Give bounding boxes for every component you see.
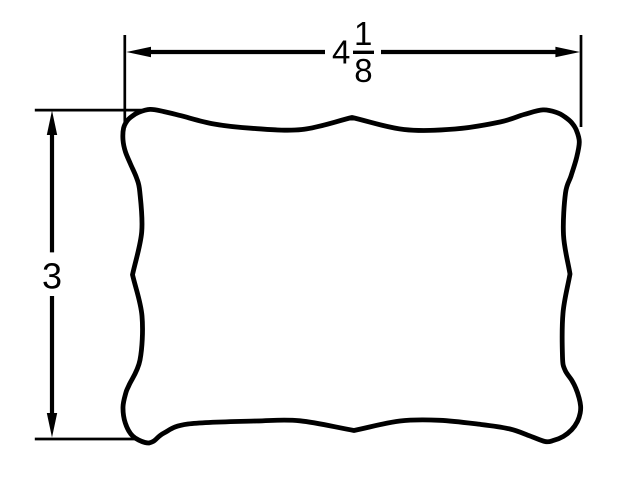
arrowhead right (points right) <box>555 47 580 57</box>
svg-text:1: 1 <box>354 15 372 52</box>
arrowhead up (points up) <box>47 111 57 136</box>
extension line vertical right (x=581) <box>580 35 583 127</box>
plaque outline (wavy-edge rectangle) <box>123 109 581 443</box>
arrowhead left (points left) <box>126 47 151 57</box>
vertical dimension line upper segment <box>50 128 54 252</box>
svg-text:4: 4 <box>332 34 350 71</box>
horizontal dimension line left segment <box>144 50 325 54</box>
extension line horizontal bottom-left (y=438.4) <box>35 438 139 441</box>
fraction bar <box>353 51 374 54</box>
horizontal dimension line right segment <box>381 50 562 54</box>
extension line horizontal top-left (y=110.1) <box>35 109 142 112</box>
arrowhead down (points down) <box>47 413 57 438</box>
extension line vertical left (x=124.8) <box>123 35 126 128</box>
svg-text:3: 3 <box>42 256 62 297</box>
vertical dimension line lower segment <box>50 296 54 420</box>
svg-text:8: 8 <box>354 52 372 89</box>
